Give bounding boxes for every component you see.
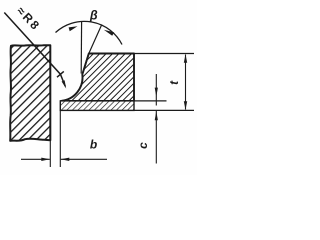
- beta angle arc: [56, 21, 123, 44]
- weld + right plate mass: [61, 54, 134, 101]
- svg-text:c: c: [136, 142, 150, 149]
- extension line plate bottom right: [134, 100, 167, 102]
- beta angle vertical reference line: [80, 22, 82, 74]
- c dimension: [155, 74, 158, 164]
- svg-text:b: b: [90, 138, 97, 152]
- root strip (fine hatched): [60, 101, 134, 111]
- left plate (vertical, hatched, wavy break edges): [10, 45, 50, 141]
- extension line top surface right: [134, 53, 194, 55]
- R8 leader line with arrow: [4, 13, 66, 89]
- beta angle slant reference line: [89, 25, 102, 54]
- b dimension: [21, 110, 107, 167]
- t dimension line: [184, 54, 187, 109]
- radius center cross: [57, 71, 64, 77]
- svg-text:β: β: [89, 9, 98, 23]
- extension line strip bottom right: [134, 109, 194, 111]
